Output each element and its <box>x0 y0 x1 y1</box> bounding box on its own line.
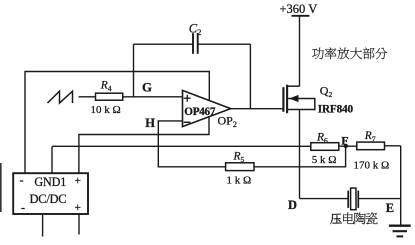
wire GND1 rail to R6 <box>52 145 311 147</box>
wire C2 left <box>134 43 194 45</box>
wire sawtooth to R4 <box>79 96 96 98</box>
wire F vertical to R5 line <box>345 146 347 168</box>
svg-text:OP467: OP467 <box>184 106 216 118</box>
wire Q2 source down to node D <box>299 110 301 199</box>
wire op-amp output to gate <box>231 108 284 110</box>
Q2 body stub <box>288 98 315 100</box>
capacitor C2 right plate <box>197 33 199 54</box>
svg-text:170 k Ω: 170 k Ω <box>354 159 390 171</box>
svg-text:+: + <box>75 202 82 214</box>
svg-text:D: D <box>288 198 297 212</box>
transistor Q2 channel bar <box>286 85 288 114</box>
svg-text:DC/DC: DC/DC <box>30 192 67 206</box>
wire DC/DC GND1 terminal vertical <box>51 147 53 174</box>
Q2 body arrow <box>289 95 299 102</box>
wire piezo to node E <box>358 198 400 200</box>
DC/DC converter box <box>13 173 88 214</box>
svg-text:+360 V: +360 V <box>280 2 318 16</box>
transistor Q2 gate bar <box>282 87 284 112</box>
piezo left plate <box>347 191 349 208</box>
svg-text:10 k Ω: 10 k Ω <box>91 104 121 116</box>
svg-text:IRF840: IRF840 <box>318 104 354 116</box>
resistor R7 <box>357 142 385 150</box>
label piezoelectric ceramic (Chinese) <box>330 214 342 225</box>
wire left border vertical to DC/DC minus <box>24 71 26 174</box>
svg-text:G: G <box>142 80 152 94</box>
Q2 body-source join vertical <box>314 98 316 110</box>
resistor R4 <box>96 93 123 100</box>
label power-amplifier section (Chinese) <box>312 48 324 59</box>
op-amp + input sign vertical <box>186 95 188 102</box>
piezo right plate <box>357 191 359 208</box>
ground bar 2 <box>393 230 407 232</box>
svg-text:GND1: GND1 <box>34 175 66 189</box>
wire DC/DC bottom lead 1 <box>42 214 44 237</box>
wire R4 to op-amp + input, node G <box>123 96 183 98</box>
piezo crystal body <box>351 188 356 210</box>
supply +360V terminal bar <box>292 15 310 17</box>
Q2 drain stub <box>287 85 300 87</box>
op-amp - input sign <box>184 121 191 123</box>
wire DC/DC plus terminal vertical <box>78 134 80 174</box>
wire R7 to node E vertical <box>385 145 401 147</box>
svg-text:-: - <box>21 201 25 215</box>
svg-text:1 k Ω: 1 k Ω <box>227 174 252 186</box>
op-amp + input sign horizontal <box>184 97 191 99</box>
capacitor C2 left plate <box>192 33 194 54</box>
Q2 source stub <box>287 109 316 111</box>
wire C2 to op-amp output <box>249 44 251 109</box>
wire H to R5 to F <box>158 166 346 168</box>
ground bar 1 <box>389 225 411 227</box>
wire C2 right <box>198 43 251 45</box>
sawtooth input signal symbol <box>48 91 73 103</box>
scan artifact left edge <box>0 163 2 212</box>
wire op-amp V- rail horizontal <box>79 134 210 136</box>
wire node G vertical to C2 <box>133 44 135 97</box>
wire op-amp V+ rail horizontal <box>25 71 209 73</box>
svg-text:-: - <box>20 173 24 187</box>
wire op-amp V- pin vertical <box>208 117 210 135</box>
ground bar 3 <box>397 235 404 237</box>
op-amp U1 OP467 triangle <box>183 90 231 126</box>
wire op-amp V+ pin vertical <box>208 71 210 101</box>
svg-text:5 k Ω: 5 k Ω <box>312 154 337 166</box>
svg-text:H: H <box>145 116 155 130</box>
wire node H vertical <box>157 120 159 167</box>
wire node D to piezo <box>300 198 349 200</box>
wire DC/DC bottom lead 2 <box>78 214 80 235</box>
svg-text:E: E <box>386 201 394 215</box>
resistor R6 <box>311 143 339 151</box>
wire +360V to drain <box>299 16 301 87</box>
wire op-amp - input <box>158 120 182 122</box>
resistor R5 <box>226 163 254 171</box>
wire node E vertical to ground <box>400 146 402 226</box>
node F junction dot <box>344 144 348 148</box>
svg-text:+: + <box>75 175 82 187</box>
wire R6 to R7, node F <box>339 145 357 147</box>
